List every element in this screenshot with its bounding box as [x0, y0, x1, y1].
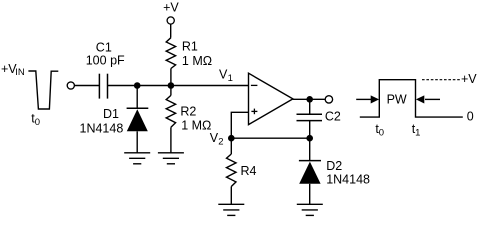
output terminal — [325, 96, 332, 103]
svg-text:0: 0 — [35, 117, 40, 128]
svg-text:100 pF: 100 pF — [86, 54, 125, 68]
svg-text:1N4148: 1N4148 — [326, 173, 370, 187]
output waveform pulse — [360, 80, 463, 117]
svg-text:IN: IN — [15, 67, 25, 78]
output waveform +V dashed level — [422, 79, 461, 81]
op-amp minus sign — [251, 84, 258, 86]
D1 label — [80, 107, 124, 135]
capacitor C1 — [99, 74, 107, 99]
node V2 label — [210, 131, 224, 148]
svg-text:C2: C2 — [325, 109, 341, 123]
wire junction to D1 — [136, 86, 138, 109]
op-amp plus sign — [251, 109, 257, 115]
node output dot — [306, 96, 313, 103]
wire R4 to ground — [230, 187, 232, 205]
+V terminal — [167, 17, 174, 24]
svg-text:+V: +V — [461, 72, 477, 86]
svg-text:0: 0 — [467, 109, 474, 123]
R2 label — [180, 104, 211, 132]
wire C2 to feedback node — [309, 121, 311, 139]
wire D1 to ground — [136, 131, 138, 153]
diode D1 — [127, 108, 149, 131]
node t1 label (output) — [412, 122, 421, 139]
svg-text:1 MΩ: 1 MΩ — [182, 54, 212, 68]
ground (R4) — [218, 204, 244, 215]
svg-text:PW: PW — [387, 93, 407, 107]
wire op-amp + input — [231, 112, 248, 138]
svg-text:1: 1 — [228, 73, 233, 84]
wire node to R2 — [170, 86, 172, 96]
wire +V to R1 — [170, 24, 172, 38]
ground (R2) — [158, 153, 184, 164]
wire R2 to ground — [170, 127, 172, 153]
svg-text:D1: D1 — [103, 107, 119, 121]
wire op-amp output — [293, 98, 326, 100]
wire D2 to ground — [309, 184, 311, 205]
svg-text:C1: C1 — [96, 41, 112, 55]
resistor R1 — [166, 38, 175, 69]
op-amp U1 — [249, 73, 293, 124]
svg-text:2: 2 — [218, 136, 223, 147]
PW right arrow — [416, 95, 440, 103]
C1 value label — [86, 41, 125, 68]
node t0 label (output) — [375, 122, 384, 139]
svg-text:R2: R2 — [180, 104, 196, 118]
wire output node to C2 — [309, 99, 311, 114]
svg-text:1N4148: 1N4148 — [80, 121, 124, 135]
wire feedback node to D2 — [309, 138, 311, 160]
wire C1 to op-amp inverting input — [108, 85, 249, 87]
input terminal — [67, 82, 74, 89]
svg-text:1: 1 — [415, 128, 420, 139]
R1 label — [182, 39, 212, 68]
diode D2 — [299, 161, 321, 184]
node junction dot (D1 node) — [134, 82, 141, 89]
svg-text:+V: +V — [163, 1, 179, 15]
node V1 label — [219, 68, 233, 85]
svg-text:1 MΩ: 1 MΩ — [181, 119, 211, 133]
ground (D2) — [297, 204, 323, 215]
PW left arrow — [356, 95, 379, 103]
input waveform pulse — [28, 71, 58, 109]
input waveform label +VIN — [1, 62, 25, 78]
feedback wire V2 to C2/D2 node — [231, 137, 309, 139]
wire input terminal to C1 — [74, 85, 99, 87]
node t0 label (input) — [31, 112, 40, 129]
wire R1 to node — [170, 69, 172, 86]
node V2 dot — [228, 135, 235, 142]
resistor R2 — [166, 95, 175, 127]
resistor R4 — [227, 154, 237, 187]
node feedback junction dot — [306, 135, 313, 142]
svg-text:0: 0 — [379, 128, 384, 139]
svg-text:R1: R1 — [182, 39, 198, 53]
svg-text:D2: D2 — [326, 159, 342, 173]
ground (D1) — [124, 153, 150, 164]
wire V2 to R4 — [230, 138, 232, 154]
capacitor C2 — [297, 114, 323, 120]
node junction dot (R1/R2 node) — [168, 82, 175, 89]
svg-text:R4: R4 — [241, 164, 257, 178]
D2 label — [326, 159, 370, 187]
